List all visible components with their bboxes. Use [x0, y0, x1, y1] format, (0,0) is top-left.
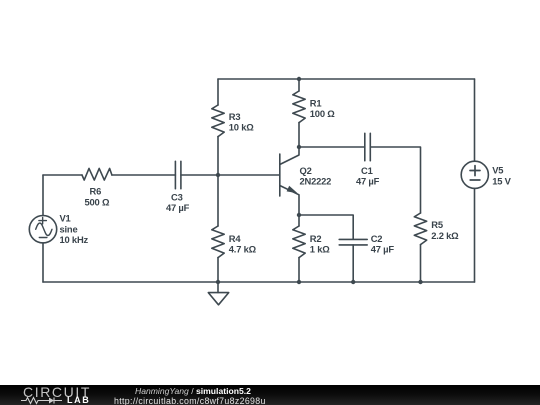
capacitor C2: [339, 238, 367, 240]
wire collector to C1: [299, 146, 365, 148]
svg-text:2N2222: 2N2222: [300, 176, 332, 187]
resistor R2: [293, 226, 305, 258]
resistor R4: [212, 226, 224, 258]
capacitor C1: [364, 133, 366, 160]
node emitter junction: [297, 213, 301, 217]
wire V1 bottom lead: [42, 243, 44, 282]
node collector junction: [297, 145, 301, 149]
svg-text:500 Ω: 500 Ω: [85, 196, 110, 207]
wire top rail: [218, 78, 475, 80]
wire C2 bottom lead: [352, 245, 354, 282]
svg-text:4.7 kΩ: 4.7 kΩ: [229, 244, 257, 255]
wire V1 top lead: [42, 175, 44, 216]
svg-text:Q2: Q2: [300, 165, 312, 176]
wire emitter to R2/C2: [299, 215, 353, 239]
svg-text:R4: R4: [229, 233, 242, 244]
svg-text:47 µF: 47 µF: [356, 176, 380, 187]
svg-text:V5: V5: [492, 165, 503, 176]
wire bottom rail: [43, 281, 475, 283]
footer bar: [0, 385, 540, 405]
svg-text:sine: sine: [60, 223, 78, 234]
wire R1 bottom lead: [298, 123, 300, 147]
node R5-bottom junction: [418, 280, 422, 284]
svg-text:R2: R2: [310, 233, 322, 244]
svg-text:1 kΩ: 1 kΩ: [310, 244, 330, 255]
wire V1 to R6: [43, 174, 82, 176]
wire R5 bottom lead: [420, 245, 422, 282]
wire V5 bottom lead: [474, 188, 476, 282]
svg-text:47 µF: 47 µF: [371, 244, 395, 255]
node R2-bottom junction: [297, 280, 301, 284]
svg-text:100 Ω: 100 Ω: [310, 108, 335, 119]
node R4-bottom junction: [216, 280, 220, 284]
wire R2 leads: [298, 215, 300, 282]
svg-text:15 V: 15 V: [492, 175, 511, 186]
node C2-bottom junction: [351, 280, 355, 284]
resistor R1: [293, 91, 305, 123]
svg-text:R6: R6: [90, 186, 102, 197]
svg-text:C3: C3: [171, 191, 183, 202]
wire C1 to R5 column: [370, 147, 420, 213]
wire R3 bottom lead: [217, 137, 219, 175]
capacitor C3: [174, 161, 176, 188]
node top-R1 junction: [297, 77, 301, 81]
svg-text:C1: C1: [361, 165, 373, 176]
svg-text:10 kHz: 10 kHz: [60, 234, 89, 245]
wire R4 top lead: [217, 175, 219, 226]
resistor R6: [82, 168, 112, 180]
wire R3 top lead: [217, 79, 219, 105]
node base-row junction: [216, 173, 220, 177]
resistor R3: [212, 105, 224, 137]
svg-text:47 µF: 47 µF: [166, 202, 190, 213]
svg-text:R1: R1: [310, 97, 322, 108]
wire R1 top lead: [298, 79, 300, 91]
wire R4 bottom lead: [217, 258, 219, 282]
source V5 (battery): [461, 161, 488, 188]
wire C3 to Q2 base: [181, 174, 280, 176]
source V1 (sine): [29, 216, 56, 243]
wire V5 top lead: [474, 79, 476, 161]
resistor R5: [414, 213, 426, 245]
transistor Q2: [280, 147, 299, 165]
svg-text:V1: V1: [60, 213, 71, 224]
svg-text:R3: R3: [229, 111, 241, 122]
wire R6 to C3: [112, 174, 175, 176]
svg-text:R5: R5: [431, 219, 443, 230]
svg-text:2.2 kΩ: 2.2 kΩ: [431, 230, 459, 241]
CircuitLab logo: [23, 385, 91, 399]
svg-text:10 kΩ: 10 kΩ: [229, 122, 254, 133]
svg-text:C2: C2: [371, 233, 383, 244]
ground: [217, 282, 219, 293]
